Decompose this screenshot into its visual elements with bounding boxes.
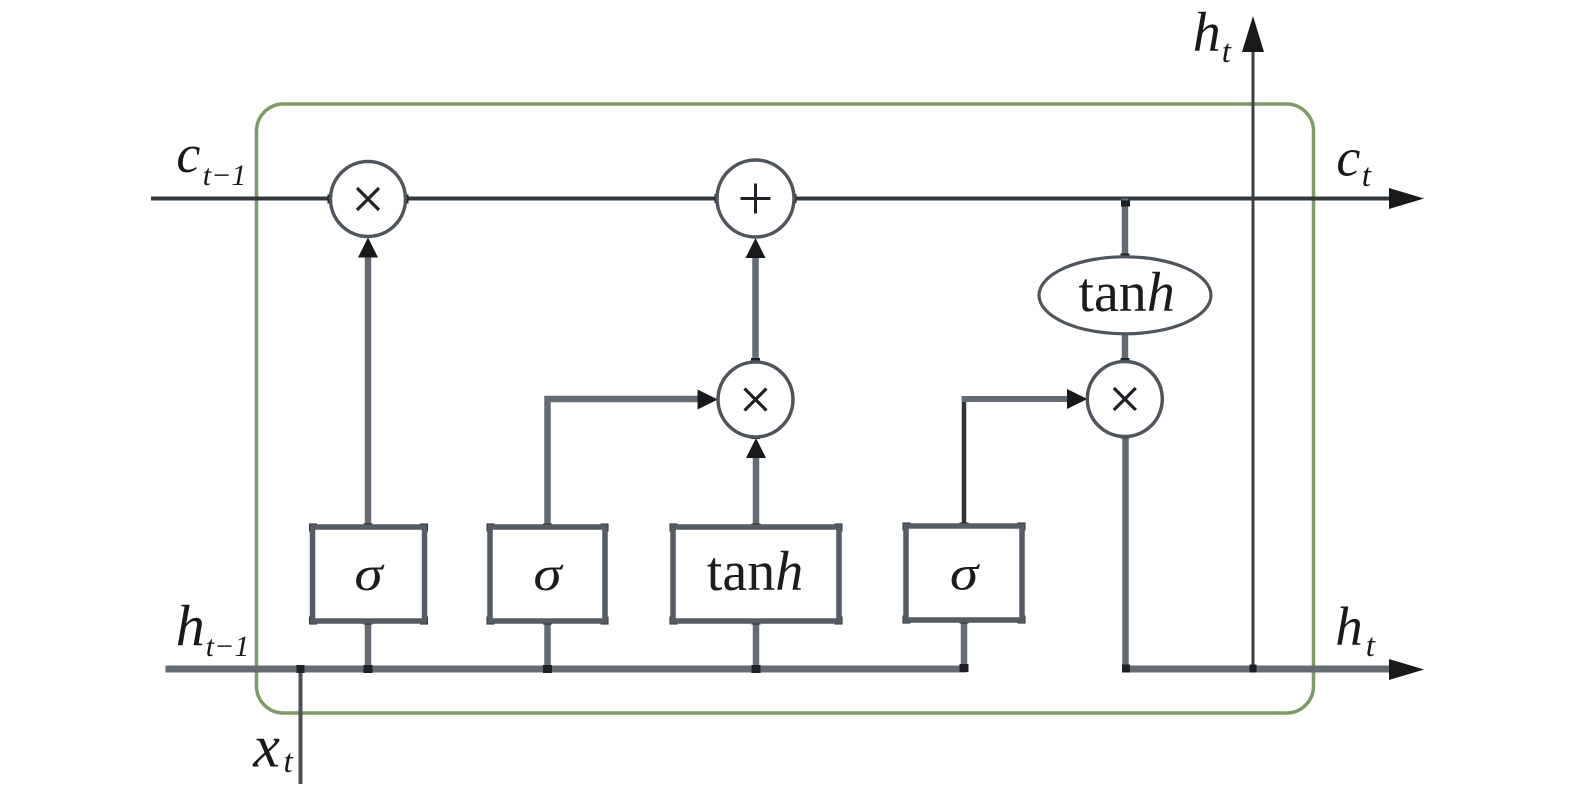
- node label c_t: [1336, 128, 1371, 195]
- node label h_{t-1}: [176, 593, 250, 663]
- wire sigma3 down to h line: [961, 620, 968, 669]
- multiply node 2 (input gate): [718, 362, 793, 437]
- wire c line (top horizontal): [151, 197, 1392, 201]
- multiply node 1 (forget gate): [331, 162, 406, 237]
- svg-text:tanh: tanh: [707, 541, 803, 603]
- circle-to-wire contact ticks: [328, 195, 334, 204]
- node label x_t: [252, 713, 293, 780]
- sigma1 box corner ticks: [309, 524, 317, 532]
- wire-to-h-line junction ticks: [297, 665, 305, 673]
- wire sigma2 up and right to multiply2: [548, 399, 699, 527]
- wire sigma3 up and right to multiply3: [962, 397, 967, 527]
- junction ticks on boxes and wires: [297, 161, 1257, 674]
- wire c line down to tanh ellipse: [1122, 199, 1129, 259]
- node label h_t (right): [1335, 596, 1375, 664]
- wire tanh box up to multiply2: [753, 457, 760, 527]
- svg-text:t: t: [1366, 628, 1376, 664]
- sigma gate box 3 (output gate sigma): [906, 526, 1022, 620]
- wire h_t vertical (tall output line): [1252, 50, 1255, 668]
- svg-text:t−1: t−1: [203, 159, 247, 192]
- sigma3 box corner ticks: [903, 523, 911, 531]
- wire h_{t-1} line (bottom horizontal, input): [166, 666, 967, 673]
- sigma gate box 2 (input gate sigma): [490, 527, 605, 621]
- LSTM cell boundary (green rounded rectangle): [257, 104, 1314, 713]
- wire sigma1 up to multiply1: [365, 252, 372, 527]
- svg-text:t−1: t−1: [206, 630, 250, 663]
- svg-text:c: c: [176, 124, 200, 184]
- multiply node 3 (output gate): [1087, 362, 1162, 437]
- wire tanh box down to h line: [753, 621, 760, 669]
- svg-text:σ: σ: [533, 546, 563, 601]
- wire sigma2 down to h line: [544, 621, 551, 669]
- tanh ellipse (cell output activation): [1039, 257, 1211, 334]
- tanh gate box (candidate activation): [673, 527, 839, 621]
- svg-text:x: x: [252, 713, 280, 779]
- sigma2 box corner ticks: [487, 524, 495, 532]
- wire h_t line (bottom horizontal, output): [1126, 666, 1392, 673]
- svg-text:h: h: [176, 593, 205, 658]
- svg-text:t: t: [1362, 158, 1372, 194]
- svg-text:tanh: tanh: [1078, 262, 1174, 324]
- wire x_t input vertical: [299, 666, 303, 784]
- wire multiply2 up to plus: [752, 258, 759, 362]
- tanh box corner ticks: [670, 524, 678, 532]
- node label h_t (top): [1193, 2, 1232, 70]
- arrow h_t top: [1242, 16, 1264, 52]
- wire multiply3 down to h line: [1122, 436, 1129, 669]
- svg-text:σ: σ: [950, 545, 980, 600]
- svg-text:σ: σ: [354, 546, 384, 601]
- wire tanh ellipse down to multiply3: [1122, 332, 1129, 363]
- svg-text:h: h: [1193, 2, 1221, 64]
- wire-to-box junction ticks: [364, 524, 373, 532]
- sigma gate box 1 (forget gate sigma): [313, 527, 425, 621]
- plus node (cell state add): [717, 160, 794, 237]
- svg-text:c: c: [1336, 128, 1360, 188]
- arrow c_t output: [1389, 188, 1424, 209]
- node label c_{t-1}: [176, 124, 246, 192]
- wire sigma1 down to h line: [365, 621, 372, 669]
- arrow h_t output: [1389, 659, 1424, 680]
- svg-text:h: h: [1335, 596, 1363, 657]
- svg-text:t: t: [1222, 34, 1232, 70]
- svg-text:t: t: [284, 744, 294, 780]
